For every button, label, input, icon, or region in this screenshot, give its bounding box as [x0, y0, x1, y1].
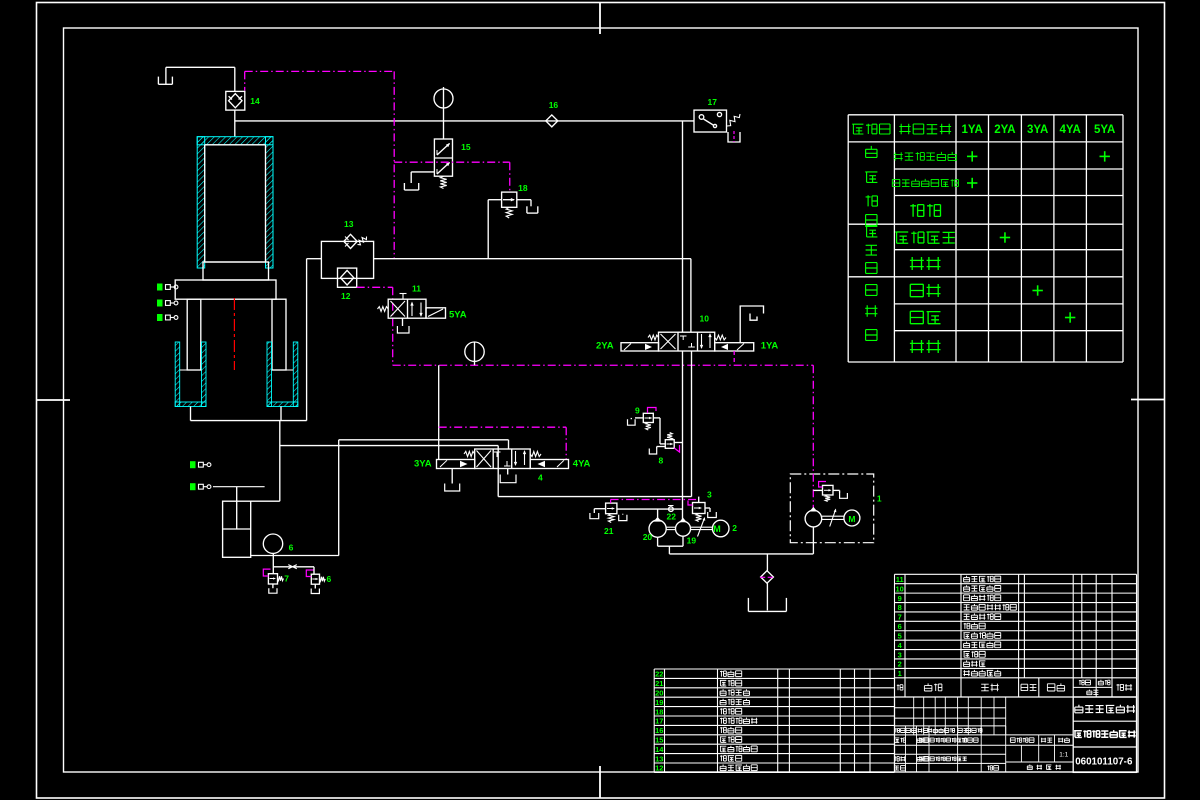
svg-text:3: 3	[707, 490, 712, 500]
svg-text:12: 12	[341, 291, 351, 301]
svg-text:3YA: 3YA	[414, 459, 432, 470]
svg-text:17: 17	[655, 717, 663, 726]
svg-text:9: 9	[898, 594, 902, 603]
svg-text:M: M	[848, 514, 855, 524]
svg-text:14: 14	[655, 745, 664, 754]
svg-text:20: 20	[643, 532, 653, 542]
svg-text:1: 1	[898, 669, 902, 678]
svg-text:6: 6	[327, 574, 332, 584]
svg-text:7: 7	[284, 574, 289, 584]
svg-text:19: 19	[655, 698, 663, 707]
svg-text:5YA: 5YA	[1094, 124, 1115, 136]
svg-text:21: 21	[655, 679, 663, 688]
svg-text:2: 2	[898, 660, 902, 669]
svg-text:15: 15	[655, 736, 663, 745]
svg-text:6: 6	[898, 622, 902, 631]
svg-text:18: 18	[518, 183, 528, 193]
svg-text:1YA: 1YA	[962, 124, 983, 136]
svg-text:4YA: 4YA	[1059, 124, 1080, 136]
svg-text:9: 9	[635, 406, 640, 416]
svg-text:20: 20	[655, 689, 663, 698]
svg-text:060101107-6: 060101107-6	[1075, 757, 1133, 768]
svg-text:5YA: 5YA	[449, 310, 467, 321]
svg-text:1:1: 1:1	[1059, 752, 1068, 759]
svg-text:10: 10	[896, 584, 904, 593]
svg-text:2: 2	[732, 523, 737, 533]
svg-text:13: 13	[655, 754, 663, 763]
svg-text:17: 17	[708, 97, 718, 107]
svg-text:22: 22	[655, 670, 663, 679]
svg-text:13: 13	[344, 219, 354, 229]
svg-text:18: 18	[655, 707, 663, 716]
svg-text:11: 11	[896, 575, 904, 584]
svg-text:14: 14	[250, 96, 260, 106]
svg-text:1: 1	[877, 494, 882, 504]
svg-text:1YA: 1YA	[761, 341, 779, 352]
svg-text:3YA: 3YA	[1027, 124, 1048, 136]
svg-text:10: 10	[700, 314, 710, 324]
svg-text:21: 21	[604, 526, 614, 536]
svg-text:16: 16	[655, 726, 663, 735]
svg-text:15: 15	[461, 142, 471, 152]
svg-text:2YA: 2YA	[596, 341, 614, 352]
svg-text:12: 12	[655, 764, 663, 773]
svg-text:6: 6	[289, 543, 294, 553]
svg-text:5: 5	[898, 631, 902, 640]
svg-text:16: 16	[549, 100, 559, 110]
svg-text:M: M	[713, 524, 721, 534]
svg-text:4YA: 4YA	[573, 459, 591, 470]
svg-text:8: 8	[659, 456, 664, 466]
svg-text:7: 7	[898, 613, 902, 622]
svg-text:3: 3	[898, 650, 902, 659]
svg-text:2YA: 2YA	[994, 124, 1015, 136]
svg-text:4: 4	[538, 473, 543, 483]
svg-text:11: 11	[412, 284, 421, 294]
svg-text:19: 19	[687, 536, 697, 546]
svg-text:22: 22	[667, 512, 677, 522]
svg-text:8: 8	[898, 603, 902, 612]
